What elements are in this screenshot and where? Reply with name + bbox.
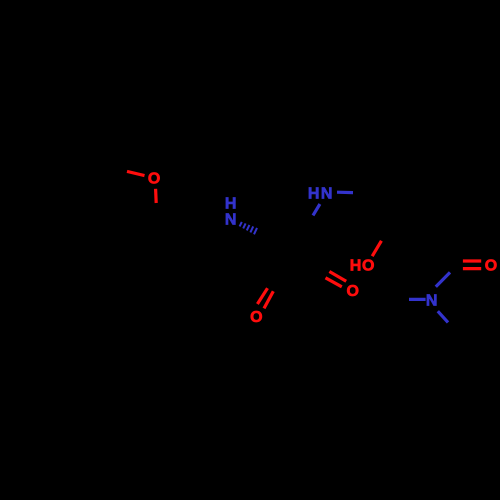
wire: ketone C=O double bond halves near O2 (257, 288, 267, 304)
wire: bond O4-C half going up-right from hydroxyl (372, 241, 381, 256)
svg-text:N: N (321, 185, 333, 202)
wire: bond N3-C half going up-right to carbonyl carbon (436, 272, 450, 286)
wire: bond O1-C half going down from ether oxygen (154, 189, 158, 203)
wire: bond N3-CH3 half going down-right (438, 311, 448, 322)
svg-text:N: N (426, 292, 438, 309)
wire: bond C-O half near ether oxygen O1 (upper-left) (127, 171, 145, 175)
wire: bond N2-C half going down-left (313, 204, 320, 215)
svg-text:O: O (485, 257, 497, 274)
svg-text:H: H (350, 257, 362, 274)
svg-text:H: H (225, 196, 237, 213)
wire: hashed stereo wedge from N1 going down-right (240, 222, 257, 234)
svg-text:O: O (250, 309, 262, 326)
wire: bond N3-CH3 half going left (409, 298, 426, 301)
svg-text:N: N (225, 211, 237, 228)
wire: bond N2-C half going right (337, 191, 353, 195)
wire: amide C=O double bond halves near O5 (horizontal) (463, 259, 481, 262)
svg-text:O: O (148, 171, 160, 188)
svg-text:H: H (308, 185, 320, 202)
svg-text:O: O (346, 283, 358, 300)
wire: ketone C=O double bond halves near O3 (329, 272, 346, 282)
svg-text:O: O (362, 257, 374, 274)
